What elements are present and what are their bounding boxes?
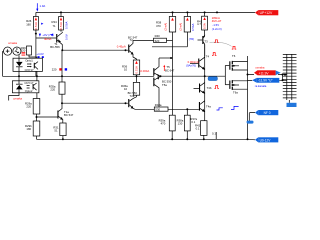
resistor R36a [133, 82, 139, 95]
svg-text:220: 220 [21, 48, 26, 52]
transistor T1a BC-547 [59, 103, 63, 111]
svg-text:R40a: R40a [155, 103, 162, 107]
opto coupler Opto1 CNY17 [13, 58, 42, 71]
svg-text:T4: T4 [206, 54, 210, 58]
wire R39 bottom [152, 32, 187, 47]
red pulse glyph [212, 53, 216, 56]
svg-text:R40: R40 [155, 34, 161, 38]
node dot opto1 right pin [36, 75, 38, 77]
transistor T4 [198, 59, 199, 68]
svg-text:0.1: 0.1 [212, 132, 216, 136]
svg-text:BC 647: BC 647 [165, 68, 175, 72]
node dot T1 base [35, 33, 37, 35]
transistor T2 BC-547 [128, 45, 129, 53]
node dot [186, 108, 188, 110]
svg-text:40mA: 40mA [44, 37, 51, 41]
transistor T1 BC-556 [56, 34, 57, 43]
svg-text:0.51A: 0.51A [59, 22, 63, 29]
node dot rail [216, 11, 218, 13]
wire R40 to rail [167, 40, 173, 42]
resistor R26 [35, 12, 37, 38]
resistor R31 [60, 123, 66, 136]
red arrow probe [163, 66, 165, 71]
vertical rail x204 [204, 44, 206, 120]
resistor R35a [59, 82, 65, 94]
mosfet T6a [225, 84, 229, 86]
node dot R38 top [172, 11, 174, 13]
capacitor blue capsule [208, 77, 218, 81]
svg-text:530: 530 [155, 108, 160, 112]
node dot [36, 116, 38, 118]
blue marks right of T4a [217, 108, 223, 110]
resistor R29b [33, 121, 40, 136]
resistor R42 [201, 121, 207, 136]
svg-text:UP+12V: UP+12V [260, 11, 273, 15]
wire T5 collector top [159, 57, 173, 59]
ground blue bar [288, 100, 290, 103]
svg-text:130: 130 [178, 121, 183, 125]
left rail wire [3, 51, 4, 76]
svg-text:T6: T6 [232, 54, 236, 58]
svg-text:(2mA): (2mA) [164, 23, 168, 31]
node dot T2a base [125, 102, 127, 104]
svg-text:160: 160 [26, 23, 31, 27]
svg-text:T2a: T2a [130, 94, 135, 98]
wire R29 to opto1 [29, 55, 37, 58]
svg-text:(7R): (7R) [189, 37, 195, 41]
svg-text:0.5A: 0.5A [203, 23, 207, 29]
wire bottom rail [37, 138, 248, 140]
flag +11.9V red [254, 70, 258, 75]
node dot opto1 left pin [18, 75, 20, 77]
svg-text:-11.9V "U": -11.9V "U" [258, 79, 273, 83]
svg-text:T6a: T6a [233, 90, 238, 94]
svg-text:51: 51 [54, 129, 58, 133]
transistor T5a BC550 [154, 77, 159, 107]
svg-text:0.56A: 0.56A [191, 24, 195, 31]
wire R40a row [135, 108, 154, 110]
node dot [247, 74, 249, 76]
node dot T2 base [125, 49, 127, 51]
mosfet T6 [225, 65, 229, 67]
load ladder [287, 54, 292, 100]
svg-text:0.51A: 0.51A [135, 66, 139, 73]
svg-text:T3: T3 [204, 39, 208, 43]
wires to load ladder [278, 75, 287, 81]
svg-text:(9Ax76): (9Ax76) [186, 64, 196, 68]
current probe blue arrow at R26 [36, 3, 38, 9]
svg-text:520: 520 [155, 39, 160, 43]
svg-text:Opto1: Opto1 [25, 59, 33, 63]
svg-text:1.9A: 1.9A [40, 4, 46, 8]
opto coupler Opto2 CNY17 [12, 81, 39, 93]
transistor T3 [203, 30, 204, 38]
svg-text:BC-556: BC-556 [50, 45, 60, 49]
svg-text:T4b: T4b [207, 86, 212, 90]
svg-text:0.51A: 0.51A [34, 22, 38, 29]
wire lower mid rail [62, 102, 128, 104]
node dot R41 top [204, 11, 206, 13]
svg-text:T4a: T4a [206, 105, 211, 109]
red pulse glyph [215, 86, 219, 89]
svg-text:0.1: 0.1 [196, 126, 200, 130]
resistor R40a 530 [154, 107, 168, 111]
resistor R38a [186, 109, 188, 115]
svg-text:BC 547: BC 547 [64, 113, 74, 117]
svg-text:180: 180 [26, 127, 31, 131]
node dot [186, 138, 188, 140]
wire T1 base from R26 [36, 37, 56, 39]
svg-text:470: 470 [161, 121, 166, 125]
wire T1a base [37, 116, 58, 118]
flag -11.9V blue [252, 78, 257, 83]
svg-text:oznaka: oznaka [255, 65, 264, 69]
wire T4 base [190, 63, 198, 65]
svg-text:(1.2mV): (1.2mV) [212, 27, 222, 31]
source V2 circle [13, 47, 21, 55]
opto rail wire [3, 75, 154, 77]
resistor R41 top right [204, 12, 206, 16]
wire top rail [36, 11, 255, 13]
svg-text:CNY17: CNY17 [25, 68, 34, 72]
transistor T2a BC-550 [128, 99, 129, 107]
vertical rail x172 [172, 12, 174, 115]
resistor R40 520 [154, 38, 167, 42]
svg-text:CNY17: CNY17 [24, 81, 33, 85]
red marks [22, 53, 26, 56]
svg-text:NF 0: NF 0 [264, 111, 271, 115]
node dot R35a top [61, 75, 63, 77]
transistor T4a [199, 102, 200, 111]
gray curve [210, 42, 232, 46]
svg-text:10: 10 [124, 67, 128, 71]
red pulse glyph 2 [232, 46, 236, 49]
svg-text:4.7: 4.7 [197, 22, 201, 26]
blue arrow left [50, 33, 53, 36]
node dot [171, 138, 173, 140]
wire R26 node down [35, 38, 37, 76]
resistor R39a [169, 115, 175, 131]
source V1 circle [4, 47, 12, 55]
right rail [247, 56, 249, 139]
node dot [170, 57, 172, 59]
resistor R39 [186, 12, 188, 16]
svg-text:0.45µA: 0.45µA [117, 45, 126, 49]
flag U0-12V blue [248, 138, 256, 141]
resistor R38 [169, 17, 175, 33]
node dot [61, 102, 63, 104]
flag UP+12V red [255, 10, 258, 15]
svg-text:oznaka: oznaka [13, 97, 22, 101]
svg-text:ra kanala: ra kanala [255, 84, 267, 88]
flag NF blue [247, 121, 254, 124]
node dot [203, 138, 205, 140]
resistor R29a [33, 99, 40, 115]
node dot [204, 75, 206, 77]
probe blue arrow at base [39, 34, 41, 37]
node dot [62, 138, 64, 140]
svg-text:10: 10 [124, 87, 128, 91]
svg-text:470: 470 [156, 24, 161, 28]
svg-text:T5a: T5a [162, 83, 167, 87]
resistor R29 small [27, 46, 32, 55]
svg-text:71: 71 [53, 24, 57, 28]
wire to output flags [248, 75, 255, 81]
wire mid rail to T2 [62, 49, 128, 51]
svg-text:U0-12V: U0-12V [260, 138, 272, 142]
svg-text:oznaka: oznaka [8, 41, 17, 45]
svg-text:T2: T2 [130, 38, 134, 42]
node dot T5 out [160, 75, 162, 77]
svg-text:0.0V: 0.0V [64, 34, 68, 40]
svg-text:+11.9V: +11.9V [259, 71, 270, 75]
svg-text:-0.004A: -0.004A [140, 69, 150, 73]
svg-text:220: 220 [50, 88, 55, 92]
svg-text:Opto2: Opto2 [25, 89, 33, 93]
wire gate node [205, 66, 226, 85]
node dot R39 top [186, 11, 188, 13]
wire T5 out to right rail [161, 75, 205, 77]
svg-text:+4.0V: +4.0V [36, 52, 44, 56]
svg-text:220: 220 [52, 68, 57, 72]
svg-text:(2mA): (2mA) [179, 23, 183, 31]
resistor R34 [60, 12, 62, 31]
transistor pair T5 BC547 [153, 68, 155, 76]
node dot R36 bottom [136, 75, 138, 77]
wire T2 collector to R40 [133, 40, 154, 42]
stub resistor small [215, 132, 217, 139]
svg-text:0.56A: 0.56A [65, 22, 69, 29]
resistor R36 [133, 60, 139, 75]
transistor T4b [199, 84, 200, 93]
node dot T1 emitter [61, 49, 63, 51]
node dot R34 top [60, 11, 62, 13]
red pulse glyph [214, 40, 218, 43]
svg-text:220: 220 [26, 104, 31, 108]
